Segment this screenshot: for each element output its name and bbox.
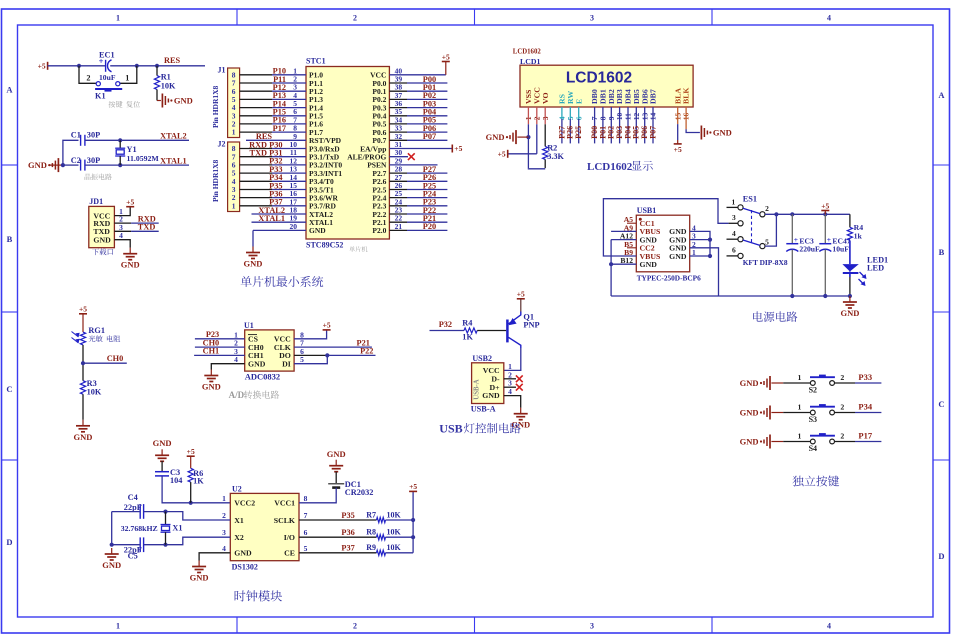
svg-text:6: 6 <box>732 246 736 255</box>
ground <box>129 248 131 254</box>
capacitor EC1 10uF <box>99 51 116 82</box>
junction <box>848 294 852 298</box>
wire <box>110 65 157 67</box>
push button K1 <box>86 74 129 101</box>
svg-text:4: 4 <box>508 387 512 396</box>
wire <box>157 65 205 67</box>
wire <box>85 164 189 166</box>
wire <box>162 476 230 503</box>
svg-text:+5: +5 <box>187 447 195 456</box>
svg-text:30P: 30P <box>87 156 100 165</box>
svg-text:GND: GND <box>511 420 530 430</box>
LCD1 pin numbers <box>524 112 691 120</box>
ground <box>769 406 771 420</box>
label 单片机 caption <box>349 246 367 252</box>
svg-text:P25: P25 <box>574 126 583 139</box>
svg-text:C5: C5 <box>128 551 138 560</box>
ground <box>198 561 200 567</box>
ground <box>252 247 254 253</box>
junction <box>708 238 712 242</box>
capacitor EC47 10uF <box>819 214 850 296</box>
wire GND B12 <box>611 263 636 265</box>
svg-text:RES: RES <box>164 56 181 65</box>
svg-text:5: 5 <box>300 355 304 364</box>
label 晶振电路 caption <box>85 174 112 180</box>
wire <box>544 159 546 168</box>
wire pin29 PSEN <box>389 164 437 166</box>
wire <box>389 139 407 141</box>
svg-text:GND: GND <box>121 260 140 270</box>
STC1 left pin names <box>309 71 342 236</box>
wire <box>240 90 272 92</box>
svg-text:USB1: USB1 <box>637 206 657 215</box>
photoresistor RG1 <box>72 326 106 345</box>
svg-text:10uF: 10uF <box>99 73 116 82</box>
ground <box>161 94 163 108</box>
svg-text:+5: +5 <box>454 144 462 153</box>
svg-text:1: 1 <box>797 403 801 412</box>
wire pin7 CLK <box>294 346 372 348</box>
wire <box>619 107 621 143</box>
label 独立按键 caption <box>793 476 840 487</box>
wire <box>389 213 407 215</box>
svg-text:+5: +5 <box>674 145 682 154</box>
wire <box>771 412 783 414</box>
wire pin6 DO <box>294 354 327 356</box>
svg-text:30P: 30P <box>87 131 100 140</box>
wire <box>211 364 244 370</box>
wire X1 bottom to pin3 <box>166 537 231 545</box>
svg-text:GND: GND <box>153 438 172 448</box>
svg-text:21: 21 <box>395 222 403 231</box>
power +5 <box>442 61 450 63</box>
wire <box>161 461 163 471</box>
svg-text:2: 2 <box>765 204 769 213</box>
wire GND row2 to rail <box>690 248 719 296</box>
wire <box>389 98 407 100</box>
wire <box>783 412 810 414</box>
wire <box>386 552 414 554</box>
svg-text:5: 5 <box>304 544 308 553</box>
svg-text:10uF: 10uF <box>832 245 849 254</box>
svg-text:2: 2 <box>86 74 90 83</box>
svg-text:PNP: PNP <box>523 320 539 329</box>
wire pin30 ALE <box>389 156 408 158</box>
wire CC2 stub <box>627 247 636 249</box>
power +5 <box>451 145 453 153</box>
svg-text:R1: R1 <box>161 73 171 82</box>
svg-text:XTAL1: XTAL1 <box>160 156 187 165</box>
svg-text:C: C <box>6 384 12 394</box>
svg-text:1k: 1k <box>854 231 863 240</box>
wire <box>386 536 414 538</box>
svg-text:P2.0: P2.0 <box>372 226 386 235</box>
svg-text:DB7: DB7 <box>649 89 658 104</box>
wire GND A12 <box>611 239 636 241</box>
junction <box>708 254 712 258</box>
svg-text:32.768kHZ: 32.768kHZ <box>121 524 158 533</box>
svg-text:ADC0832: ADC0832 <box>245 371 280 381</box>
label 单片机最小系统 title <box>241 276 324 287</box>
svg-text:P33: P33 <box>858 372 872 382</box>
wire <box>85 139 189 141</box>
wire <box>389 229 407 231</box>
label 电源电路 caption <box>753 311 797 322</box>
label LCD1602显示 caption <box>587 161 653 173</box>
wire <box>783 441 810 443</box>
wire <box>335 472 337 483</box>
wire <box>835 441 856 443</box>
svg-text:J2: J2 <box>218 140 226 149</box>
svg-text:GND: GND <box>28 160 47 170</box>
svg-text:GND: GND <box>309 226 326 235</box>
wire <box>389 123 407 125</box>
STC1 right pin names <box>347 71 387 236</box>
wire <box>240 180 272 182</box>
USB1 left pin names <box>640 219 661 269</box>
power +5 <box>674 143 682 145</box>
svg-text:10K: 10K <box>387 543 402 552</box>
capacitor C2 30P <box>71 156 100 171</box>
svg-text:1: 1 <box>232 128 236 137</box>
wire <box>386 519 414 521</box>
svg-text:3: 3 <box>732 213 736 222</box>
wire <box>389 172 407 174</box>
svg-text:10K: 10K <box>161 81 176 90</box>
svg-text:C1: C1 <box>71 131 81 140</box>
svg-text:R9: R9 <box>366 543 376 552</box>
ground <box>700 126 702 140</box>
wire <box>240 197 272 199</box>
resistor R3 10K <box>80 379 101 396</box>
svg-text:K1: K1 <box>95 92 106 101</box>
transistor Q1 PNP <box>507 312 539 349</box>
svg-text:1K: 1K <box>462 333 473 342</box>
junction <box>411 518 415 522</box>
ic USB2 USB-A socket <box>472 354 504 404</box>
svg-text:10K: 10K <box>87 387 102 396</box>
wire <box>430 330 465 332</box>
svg-text:P34: P34 <box>858 402 872 412</box>
wire VCC pin2 <box>536 107 538 124</box>
svg-text:5: 5 <box>765 237 769 246</box>
ground <box>210 370 212 376</box>
wire <box>240 189 272 191</box>
ic LCD1 LCD1602 display <box>513 49 693 108</box>
ic USB1 TYPEC-250D-BCP6 <box>636 206 701 283</box>
USB1 right pin numbers <box>692 223 696 257</box>
svg-text:104: 104 <box>170 476 182 485</box>
wire <box>610 107 612 143</box>
svg-text:GND: GND <box>234 549 252 558</box>
wire VBUS B9 to switch rail <box>603 199 728 256</box>
svg-text:4: 4 <box>827 622 831 631</box>
USB1 left pin designators <box>620 215 633 265</box>
wire pin40 VCC to +5 <box>389 74 445 76</box>
wire <box>82 314 84 332</box>
junction <box>155 64 159 68</box>
wire <box>389 115 407 117</box>
resistor R4 1K <box>462 319 477 342</box>
connector JD1 download port <box>89 197 115 248</box>
power +5 <box>47 62 49 70</box>
wire <box>240 205 272 207</box>
wire VCC1 pin8 <box>299 488 336 503</box>
wire <box>389 197 407 199</box>
svg-text:P32: P32 <box>439 320 452 329</box>
wire <box>48 164 63 166</box>
svg-text:GND: GND <box>93 236 111 245</box>
svg-text:JD1: JD1 <box>89 197 103 206</box>
svg-text:S3: S3 <box>809 415 817 424</box>
label A/D转换电路 caption <box>229 390 280 400</box>
wire <box>783 382 810 384</box>
svg-text:USB-A: USB-A <box>471 404 496 413</box>
wire <box>690 239 710 241</box>
svg-text:LED: LED <box>867 263 884 272</box>
svg-text:STC1: STC1 <box>306 57 326 66</box>
svg-text:6: 6 <box>304 528 308 537</box>
svg-text:J1: J1 <box>218 66 226 75</box>
svg-text:+5: +5 <box>409 482 417 491</box>
svg-text:DS1302: DS1302 <box>232 563 258 572</box>
svg-text:P17: P17 <box>273 124 286 133</box>
svg-text:KFT DIP-8X8: KFT DIP-8X8 <box>743 258 788 267</box>
svg-text:GND: GND <box>244 259 263 269</box>
no-connect X <box>516 375 523 382</box>
wire <box>240 172 272 174</box>
wire pin31 EA to +5 <box>389 148 452 150</box>
junction <box>118 138 122 142</box>
svg-text:1: 1 <box>116 14 120 23</box>
svg-text:D: D <box>938 551 944 561</box>
svg-text:A: A <box>938 90 945 100</box>
svg-text:C: C <box>938 399 944 409</box>
svg-text:EC1: EC1 <box>99 51 115 60</box>
wire <box>771 441 783 443</box>
svg-text:TXD: TXD <box>138 223 156 232</box>
wire +5 feed <box>508 153 537 155</box>
wire <box>144 544 166 546</box>
wire <box>156 90 158 101</box>
svg-text:CH0: CH0 <box>107 354 124 363</box>
svg-text:LCD1602: LCD1602 <box>566 70 632 87</box>
svg-text:RG1: RG1 <box>88 326 105 335</box>
wire <box>389 107 407 109</box>
junction <box>110 543 114 547</box>
wire <box>190 456 192 468</box>
ic U1 STC89C52 single-chip MCU <box>306 57 389 250</box>
junction <box>823 294 827 298</box>
power +5 <box>126 206 134 208</box>
svg-text:Pin HDR1X8: Pin HDR1X8 <box>211 85 220 128</box>
svg-text:X1: X1 <box>172 523 182 532</box>
svg-text:4: 4 <box>732 229 736 238</box>
wire <box>652 107 654 143</box>
wire <box>771 382 783 384</box>
svg-text:Y1: Y1 <box>127 145 137 154</box>
wire <box>195 346 245 348</box>
svg-text:GND: GND <box>840 308 859 318</box>
power +5 <box>824 211 826 215</box>
junction <box>189 501 193 505</box>
junction <box>118 163 122 167</box>
junction <box>790 212 794 216</box>
STC1 right pin numbers <box>395 66 403 231</box>
resistor R6 1K <box>188 468 204 485</box>
battery DC1 CR2032 <box>328 480 373 497</box>
label 按键复位 caption <box>109 101 141 108</box>
svg-text:GND: GND <box>740 378 759 388</box>
wire USB1 right GND pins <box>690 231 710 256</box>
svg-text:C2: C2 <box>71 156 81 165</box>
wire <box>240 115 272 117</box>
wire <box>240 123 272 125</box>
capacitor EC3 220uF <box>786 214 820 296</box>
wire <box>299 536 377 538</box>
svg-text:GND: GND <box>640 260 658 269</box>
resistor R8 10K <box>366 528 401 540</box>
wire <box>240 82 272 84</box>
svg-text:P20: P20 <box>423 222 436 231</box>
wire <box>144 511 166 513</box>
wire <box>835 412 856 414</box>
svg-text:2: 2 <box>353 14 357 23</box>
wire <box>240 107 272 109</box>
label 光敏电阻 caption <box>89 335 121 342</box>
wire <box>194 354 245 356</box>
svg-text:S2: S2 <box>809 386 817 395</box>
svg-text:R7: R7 <box>366 510 376 519</box>
svg-text:USB: USB <box>439 422 462 436</box>
wire <box>120 66 137 84</box>
push button S4 <box>797 432 844 454</box>
svg-text:3: 3 <box>590 14 594 23</box>
svg-text:P35: P35 <box>341 511 354 520</box>
label 时钟模块 caption <box>235 590 282 601</box>
svg-text:CE: CE <box>284 549 295 558</box>
svg-text:1: 1 <box>232 201 236 210</box>
ground <box>520 408 522 414</box>
svg-text:3.3K: 3.3K <box>547 152 564 161</box>
resistor R4 1k <box>847 214 863 240</box>
wire <box>389 82 407 84</box>
svg-text:+: + <box>827 235 831 244</box>
svg-text:+5: +5 <box>126 198 134 207</box>
U2 pin names <box>234 499 295 558</box>
wire <box>63 164 79 166</box>
wire <box>114 222 131 224</box>
svg-text:B: B <box>939 247 945 257</box>
crystal Y1 11.0592M <box>115 140 159 165</box>
svg-text:4: 4 <box>234 355 238 364</box>
svg-text:1: 1 <box>222 494 226 503</box>
svg-text:3: 3 <box>222 528 226 537</box>
wire <box>389 205 407 207</box>
wire VSS pin1 <box>527 107 529 124</box>
svg-text:D: D <box>6 537 12 547</box>
svg-text:2: 2 <box>222 511 226 520</box>
USB1 right pin names <box>669 227 687 261</box>
svg-text:GND: GND <box>713 128 732 138</box>
svg-text:10K: 10K <box>387 510 402 519</box>
svg-text:P07: P07 <box>423 132 436 141</box>
ic U1 ADC0832 <box>244 321 294 381</box>
wire <box>299 519 377 521</box>
wire <box>627 107 629 143</box>
junction <box>411 535 415 539</box>
svg-text:+5: +5 <box>498 149 506 158</box>
wire pin8 to +5 <box>294 330 327 339</box>
svg-text:8: 8 <box>304 494 308 503</box>
junction <box>77 64 81 68</box>
svg-text:+5: +5 <box>442 52 450 61</box>
wire <box>594 107 596 143</box>
svg-text:GND: GND <box>486 132 505 142</box>
svg-text:LCD1: LCD1 <box>520 57 540 66</box>
wire GND pin4 <box>504 396 521 408</box>
wire <box>114 240 130 248</box>
resistor R9 10K <box>366 543 401 555</box>
svg-text:I/O: I/O <box>284 533 295 542</box>
svg-text:P07: P07 <box>648 126 657 139</box>
svg-text:4: 4 <box>119 231 123 240</box>
wire <box>569 107 571 119</box>
svg-text:+5: +5 <box>517 290 525 299</box>
power +5 <box>323 329 331 331</box>
svg-text:GND: GND <box>327 449 346 459</box>
svg-text:X2: X2 <box>234 533 244 542</box>
svg-text:2: 2 <box>353 622 357 631</box>
wire <box>240 148 272 150</box>
svg-text:ES1: ES1 <box>743 195 757 204</box>
wire <box>82 345 84 381</box>
wire <box>114 230 131 232</box>
switch ES1 KFT DIP-8X8 <box>727 195 788 267</box>
wire <box>82 394 84 420</box>
svg-text:SCLK: SCLK <box>274 516 295 525</box>
U2 pin numbers <box>222 494 308 553</box>
svg-text:22pF: 22pF <box>124 503 142 512</box>
wire <box>112 511 141 513</box>
svg-text:2: 2 <box>840 403 844 412</box>
no-connect X on pin30 <box>408 153 415 160</box>
power +5 <box>79 313 87 315</box>
wire <box>644 107 646 143</box>
svg-text:DI: DI <box>282 360 291 369</box>
wire <box>327 354 375 356</box>
svg-text:7: 7 <box>304 511 308 520</box>
wire BLK pin16 to GND <box>685 107 687 129</box>
junction <box>325 353 329 357</box>
wire <box>195 338 245 340</box>
svg-text:R4: R4 <box>462 319 472 328</box>
svg-text:USB-A: USB-A <box>474 379 481 399</box>
wire <box>240 156 272 158</box>
wire <box>517 136 528 138</box>
ground <box>769 376 771 390</box>
svg-text:4: 4 <box>827 14 831 23</box>
wire GND pin4 <box>199 553 230 561</box>
wire BLA pin15 to +5 <box>677 107 679 124</box>
wire <box>240 131 272 133</box>
power +5 <box>507 150 509 158</box>
svg-text:GND: GND <box>174 96 193 106</box>
ground <box>769 435 771 449</box>
wire <box>389 131 407 133</box>
wire GND bottom rail <box>611 295 850 297</box>
svg-text:3: 3 <box>590 622 594 631</box>
